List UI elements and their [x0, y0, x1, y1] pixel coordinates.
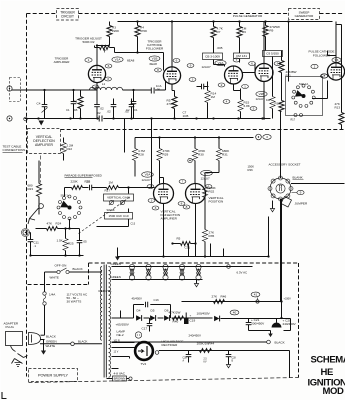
tube heaters — [129, 264, 134, 269]
wire socket to blank — [291, 183, 345, 185]
resistor R22 right of box — [61, 143, 66, 154]
switch box sweep range — [286, 77, 323, 116]
resistor R11 — [279, 61, 284, 73]
callout pin below V5B — [183, 205, 190, 209]
tube V5A vertical amp — [154, 184, 174, 204]
svg-text:30 WATTS: 30 WATTS — [67, 299, 82, 303]
tube V1A triode — [88, 65, 105, 82]
svg-text:27K: 27K — [212, 295, 218, 299]
callout pin 7 V3 — [321, 74, 328, 78]
callout pin 7 sweep — [320, 74, 327, 78]
callout pin below V5A — [152, 206, 159, 210]
wire right edge ps — [290, 319, 292, 331]
svg-text:.02: .02 — [97, 111, 101, 115]
svg-text:V3: V3 — [335, 58, 339, 62]
trigger input jack J1 — [7, 86, 12, 91]
wire socket bottom — [280, 199, 282, 302]
diode D7 — [214, 316, 219, 321]
svg-text:R28: R28 — [138, 153, 144, 157]
svg-text:6.8K: 6.8K — [244, 104, 251, 108]
svg-text:HE: HE — [321, 367, 333, 378]
part label C10 box — [105, 213, 133, 220]
wire V1A plate up — [96, 46, 98, 66]
transformer hv leads — [112, 347, 135, 349]
svg-text:D4: D4 — [137, 309, 141, 313]
svg-text:C4: C4 — [37, 102, 41, 106]
dashed test cable outline — [40, 156, 42, 183]
wire b-plus up from rectifier — [281, 302, 283, 319]
resistor R29 — [157, 149, 162, 161]
svg-text:2: 2 — [150, 185, 152, 189]
cap C19 electrolytic — [184, 319, 189, 325]
svg-text:BLANK: BLANK — [293, 176, 304, 180]
terminal double mid-left — [23, 230, 28, 235]
svg-text:R46: R46 — [221, 295, 227, 299]
resistor R7 — [213, 22, 215, 27]
svg-text:R29: R29 — [163, 153, 169, 157]
svg-text:D5: D5 — [151, 309, 155, 313]
svg-text:MOD: MOD — [323, 386, 345, 397]
svg-text:3: 3 — [192, 78, 194, 82]
tube V2B triode — [255, 64, 273, 82]
resistor R6 — [239, 22, 241, 27]
svg-text:1B: 1B — [74, 108, 78, 112]
svg-text:GREEN: GREEN — [111, 262, 121, 266]
svg-text:.005: .005 — [217, 46, 223, 50]
svg-text:BROWN: BROWN — [114, 377, 126, 381]
cap C28B — [228, 351, 230, 355]
wire V1B plate — [171, 22, 173, 67]
tube V1B triode — [163, 67, 180, 84]
label brown — [113, 376, 127, 381]
svg-text:POWER SUPPLY: POWER SUPPLY — [38, 373, 69, 377]
diode D5 — [150, 315, 155, 320]
corner mark bottom left — [2, 392, 7, 399]
jack test probe — [28, 208, 39, 224]
resistor R30 — [192, 149, 197, 161]
svg-text:R36: R36 — [248, 168, 254, 172]
svg-text:VERTICAL GAIN: VERTICAL GAIN — [107, 196, 130, 200]
terminal callout mid right — [256, 134, 262, 140]
svg-text:2: 2 — [95, 85, 97, 89]
wire R9 down — [265, 37, 267, 51]
resistor R1 cathode — [78, 97, 83, 109]
svg-text:R13: R13 — [335, 106, 341, 110]
tube designator V5A — [142, 172, 154, 177]
callout pin 2 V1A — [92, 85, 99, 89]
wire V5 cathodes — [163, 204, 165, 257]
svg-text:4.7K/2W: 4.7K/2W — [169, 311, 181, 315]
cap C12 — [79, 229, 81, 241]
svg-text:.1: .1 — [34, 244, 37, 248]
wire V1B grid from pot — [137, 37, 139, 53]
svg-text:R1: R1 — [74, 100, 78, 104]
callout pin 7 V2A — [233, 58, 240, 62]
wire jack to R24 — [36, 228, 47, 230]
resistor R5 follower load — [172, 97, 177, 109]
svg-text:GREEN: GREEN — [111, 275, 121, 279]
wire pot to V1B grid — [114, 48, 116, 53]
svg-text:R6: R6 — [242, 30, 246, 34]
ground green wire — [43, 340, 45, 351]
resistor R24 47K — [47, 227, 58, 231]
svg-text:12AU7: 12AU7 — [142, 178, 152, 182]
resistor R35 — [202, 230, 207, 242]
wire R30 to V5B plate — [194, 178, 196, 184]
resistor R14 grid pulse — [205, 91, 210, 103]
svg-text:240/450V: 240/450V — [283, 322, 297, 326]
resistor R16 column — [270, 97, 275, 109]
resistor R28 — [132, 149, 137, 161]
svg-text:2: 2 — [314, 65, 316, 69]
svg-text:C16: C16 — [154, 298, 160, 302]
dashed border trigger/sweep section top — [27, 13, 57, 15]
transformer T1 core — [103, 265, 105, 378]
svg-text:C28: C28 — [183, 358, 188, 360]
wire V2A cathode down — [233, 84, 235, 90]
svg-text:CM 131: CM 131 — [236, 54, 247, 58]
neon lamp NE-2 — [135, 332, 141, 338]
svg-text:100/450V: 100/450V — [197, 312, 211, 316]
tube designator V1A — [112, 57, 123, 62]
svg-text:6: 6 — [176, 59, 178, 63]
callout pin 6 V5B — [205, 185, 212, 189]
callout pin 4 mid — [223, 100, 230, 104]
resistor R23 680 — [38, 161, 40, 184]
svg-text:TV2: TV2 — [141, 362, 147, 366]
resistor R26 220K — [72, 186, 83, 190]
cap C21 filter — [248, 319, 250, 323]
svg-text:R27: R27 — [105, 189, 111, 193]
svg-text:C1: C1 — [66, 108, 70, 112]
svg-text:.05: .05 — [83, 240, 88, 244]
mid bottom bus — [118, 256, 253, 258]
capacitor C6 series in bus — [99, 116, 103, 120]
svg-text:7: 7 — [182, 180, 184, 184]
wire switch to transformer — [69, 271, 102, 273]
part label C9 box — [234, 53, 250, 59]
callout 41 — [251, 292, 260, 297]
svg-text:+330V: +330V — [284, 298, 292, 301]
svg-text:47K: 47K — [47, 222, 53, 226]
callout pin 6 V2B — [249, 62, 256, 66]
svg-text:12AU7: 12AU7 — [202, 65, 212, 69]
heater black run — [112, 341, 267, 343]
terminal on r46 line — [256, 300, 259, 303]
svg-text:7: 7 — [236, 58, 238, 62]
wire R6 down — [239, 38, 241, 54]
wire right vertical 281 — [281, 199, 283, 302]
svg-text:.02: .02 — [107, 110, 112, 114]
wire accessory feed down — [182, 301, 282, 303]
wire D7 right — [221, 318, 291, 320]
capacitor C7b shunt — [131, 99, 133, 105]
wire socket return L — [268, 217, 270, 257]
label box TRIGGER CIRCUIT — [57, 9, 79, 21]
svg-text:6EA8: 6EA8 — [150, 62, 158, 66]
wire transformer secondary top to diodes — [112, 317, 121, 319]
svg-text:1/4A: 1/4A — [49, 293, 56, 297]
callout pin 6 V1B — [173, 59, 180, 63]
svg-text:C13: C13 — [131, 223, 136, 226]
svg-text:220K: 220K — [71, 180, 79, 184]
capacitor C1 shunt — [73, 90, 75, 102]
dots on B+ bus — [136, 20, 138, 22]
resistor R4 — [137, 22, 139, 26]
white wire to transformer — [40, 343, 102, 345]
svg-text:V5A: V5A — [145, 173, 152, 177]
callout pin 1 V2A — [242, 85, 249, 89]
series cap C grid .22 — [89, 185, 91, 191]
svg-text:C1: C1 — [134, 108, 138, 112]
svg-text:C17: C17 — [142, 327, 148, 331]
svg-text:GENERATOR: GENERATOR — [295, 14, 315, 18]
callout pin 9 V2B — [274, 62, 281, 66]
capacitor C2 shunt — [133, 90, 135, 102]
svg-text:41: 41 — [254, 293, 258, 297]
svg-text:200/450V: 200/450V — [251, 322, 265, 326]
svg-text:PLUG: PLUG — [6, 325, 15, 329]
adapter plug body — [6, 332, 23, 346]
dual potentiometer wipers — [109, 200, 113, 204]
svg-text:KV: KV — [204, 362, 208, 364]
callout socket pin — [297, 190, 304, 194]
wire C9 box down — [272, 57, 274, 97]
svg-text:470K: 470K — [167, 102, 175, 106]
cap C17 filter — [149, 318, 151, 324]
resistor R12 — [279, 101, 284, 112]
potentiometer R2 — [100, 46, 110, 50]
capacitor C3 series 1CA — [150, 88, 152, 94]
series cap C7 between stages — [201, 84, 203, 90]
dashed border power supply top — [28, 284, 89, 286]
resistor R40 series — [173, 316, 184, 320]
svg-text:102 R: 102 R — [114, 341, 120, 343]
cap C10 wire — [128, 188, 130, 194]
part label C9 5/350 box — [263, 51, 283, 57]
fuse F1 — [43, 292, 46, 295]
label box VERTICAL DEFLECTION AMPLIFIER — [28, 129, 61, 154]
svg-text:1M: 1M — [211, 95, 216, 99]
svg-text:SW-1A: SW-1A — [299, 82, 308, 86]
heater bus top — [112, 266, 253, 268]
label box POWER SUPPLY — [29, 369, 78, 382]
svg-text:5: 5 — [253, 107, 255, 111]
resistor R32 vertical position — [202, 187, 207, 198]
svg-text:V1A: V1A — [115, 58, 122, 62]
dashed border left vertical — [26, 14, 28, 377]
wire V1B cathode to R5 — [171, 84, 173, 90]
svg-text:R31: R31 — [222, 153, 228, 157]
transformer tap stub — [112, 368, 119, 370]
wire hv right down — [289, 351, 291, 378]
svg-text:C31: C31 — [185, 246, 191, 250]
cap C28A — [188, 351, 190, 355]
svg-text:R9: R9 — [270, 29, 274, 33]
ground bus mid-left — [31, 255, 84, 257]
svg-text:ACCESSORY SOCKET: ACCESSORY SOCKET — [269, 163, 301, 167]
resistor R15 — [238, 100, 243, 112]
svg-text:9: 9 — [300, 191, 302, 195]
svg-text:.02: .02 — [100, 107, 105, 111]
svg-text:12 V: 12 V — [114, 352, 119, 354]
adapter plug prongs — [12, 354, 28, 364]
resistor R13 right edge — [339, 113, 344, 125]
tube designator V1B — [149, 56, 160, 61]
B+ bus top — [118, 21, 333, 23]
callout pin 2 V5A — [147, 185, 154, 189]
svg-text:FOLLOWER: FOLLOWER — [146, 46, 164, 50]
svg-text:AMPLIFIER: AMPLIFIER — [35, 143, 53, 147]
callout pin 1 V1A — [85, 58, 92, 62]
svg-text:6.3V AC: 6.3V AC — [237, 271, 248, 275]
svg-text:R11: R11 — [286, 74, 292, 78]
rotary switch SW1A sweep — [302, 84, 305, 87]
adapter ground — [15, 363, 22, 367]
wire V1A cathode down — [96, 83, 98, 90]
callout pin 8 V1B — [155, 68, 162, 72]
inductor L1 — [90, 87, 123, 90]
socket lamp symbol — [276, 184, 285, 193]
capacitor C6 shunt — [113, 99, 115, 105]
rotary switch SW2 display — [68, 195, 71, 198]
tube designator V3 — [311, 64, 318, 68]
tube designator V2A — [215, 60, 226, 65]
svg-text:SW-1B: SW-1B — [107, 209, 115, 212]
svg-text:WHITE: WHITE — [46, 344, 56, 348]
resistor R27 vertical gain — [107, 186, 119, 190]
tube V3 pulse follower — [327, 63, 344, 80]
svg-text:R17: R17 — [291, 119, 296, 122]
accessory socket ring — [270, 178, 291, 199]
svg-text:220K: 220K — [112, 29, 120, 33]
callout pin 3 V1A — [105, 77, 112, 81]
trimmer cap C4 — [44, 90, 46, 105]
resistor R3 — [109, 22, 111, 26]
heater supply terminal — [227, 265, 231, 269]
svg-text:500K R2: 500K R2 — [82, 40, 94, 44]
wire V2B plate — [263, 22, 265, 64]
svg-text:R5: R5 — [177, 237, 181, 241]
wire V3 leads — [335, 56, 337, 63]
tv2 internals — [146, 346, 148, 356]
svg-text:6: 6 — [251, 62, 253, 66]
callout pin 7 V5B — [179, 180, 186, 184]
svg-text:3: 3 — [151, 199, 153, 203]
ground C21 — [270, 331, 272, 334]
ground mid bottom — [115, 257, 120, 261]
resistor R33 mid — [181, 242, 191, 246]
terminal near R30 — [188, 158, 192, 162]
svg-text:C9 5/350: C9 5/350 — [266, 52, 279, 56]
svg-text:R30: R30 — [198, 153, 204, 157]
supply rail mid — [135, 137, 254, 139]
svg-text:RED/YEL: RED/YEL — [99, 289, 113, 293]
dashed border power supply right — [298, 263, 300, 378]
wire switch wiper down — [69, 219, 71, 229]
chassis arrow below bus — [39, 121, 45, 126]
wire input to L1 — [12, 89, 90, 91]
svg-text:NE-2: NE-2 — [117, 333, 124, 337]
tube V2A triode — [225, 66, 243, 84]
resistor R31 — [216, 149, 221, 161]
svg-text:C19: C19 — [190, 319, 196, 323]
part label C8 box — [203, 53, 223, 60]
callout pin 5 mid — [250, 107, 257, 111]
svg-text:OFF-ON: OFF-ON — [55, 264, 67, 268]
svg-text:+65/350V: +65/350V — [116, 323, 130, 327]
svg-text:8: 8 — [181, 202, 183, 206]
svg-text:1CB: 1CB — [183, 114, 189, 118]
label vertical gain box — [104, 194, 134, 201]
svg-text:1500 UUF C10: 1500 UUF C10 — [108, 214, 128, 218]
wire terminal bus — [30, 232, 31, 234]
label box SWEEP GENERATOR — [289, 9, 320, 20]
callout pin 3 pulse — [189, 78, 196, 82]
svg-text:6EA8: 6EA8 — [127, 59, 135, 63]
svg-text:1.5K: 1.5K — [57, 239, 63, 243]
svg-text:C28: C28 — [232, 358, 237, 360]
svg-text:R40: R40 — [173, 320, 179, 324]
resistor R44 — [200, 349, 212, 353]
svg-text:8: 8 — [186, 205, 188, 209]
wire right vertical sweep feed — [335, 22, 337, 56]
svg-text:R7: R7 — [217, 30, 221, 34]
resistor R46 — [214, 300, 225, 304]
svg-text:45/450V: 45/450V — [132, 297, 143, 301]
wire V2A plate link — [214, 64, 225, 66]
wire R7 to V2A plate — [213, 38, 215, 54]
line cord plug — [29, 333, 41, 345]
svg-text:V5B: V5B — [204, 171, 210, 175]
tube designator V2B — [256, 91, 267, 96]
dashed divider mid — [27, 129, 28, 131]
callout pin 9 top — [187, 64, 194, 68]
svg-text:CB 3-1009: CB 3-1009 — [205, 54, 220, 58]
heater bus bottom — [112, 279, 203, 281]
ground heater — [194, 284, 198, 287]
svg-text:R25: R25 — [68, 242, 74, 246]
svg-text:R32: R32 — [209, 190, 215, 194]
jumper diamond — [281, 197, 292, 208]
svg-text:CIRCUIT: CIRCUIT — [61, 14, 74, 18]
svg-text:V1B: V1B — [152, 57, 158, 61]
hv line — [159, 350, 290, 352]
svg-text:R22: R22 — [67, 147, 73, 151]
callout 6AN8 — [332, 58, 341, 63]
svg-text:WHITE: WHITE — [50, 275, 59, 279]
svg-text:1M: 1M — [266, 98, 271, 102]
transformer T1 secondary winding — [109, 267, 111, 378]
switch linkage dashed — [79, 197, 131, 234]
wire L1 to C3 — [123, 89, 152, 91]
svg-text:3: 3 — [155, 206, 157, 210]
svg-text:BLACK: BLACK — [78, 339, 88, 343]
svg-text:R35: R35 — [209, 234, 215, 238]
svg-text:R44: R44 — [209, 342, 215, 346]
terminals below switch box — [294, 114, 297, 117]
ground socket — [270, 209, 274, 212]
cap C11 left — [30, 233, 32, 240]
svg-text:3: 3 — [266, 135, 268, 139]
hv rectifier tube TV2 thick circle — [135, 342, 153, 360]
diode D4 — [136, 315, 141, 320]
svg-text:9: 9 — [190, 64, 192, 68]
wire switch to tube — [312, 98, 328, 100]
tube V5B vertical amp — [186, 184, 206, 204]
power switch SW-3 — [57, 270, 60, 273]
svg-text:BLACK: BLACK — [275, 341, 286, 345]
